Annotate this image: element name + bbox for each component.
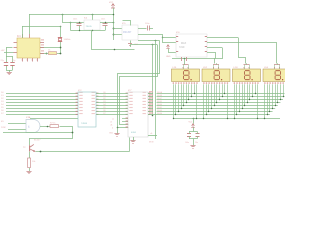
junction rtc pin2 <box>113 34 115 36</box>
wire link Q5 <box>96 108 128 110</box>
svg-text:IC3A: IC3A <box>26 116 31 119</box>
ic driver MAX7219 <box>176 34 207 57</box>
svg-text:+5V: +5V <box>1 50 5 52</box>
junction R node <box>46 53 48 55</box>
junction gnd stub <box>117 127 119 129</box>
svg-text:4094: 4094 <box>131 132 137 134</box>
svg-text:SEGE: SEGE <box>157 104 163 106</box>
display LD3 <box>233 69 261 82</box>
wire R8 gnd <box>29 168 31 171</box>
wire vcc3 down <box>193 127 195 131</box>
junction gnd mid <box>114 49 116 51</box>
svg-text:7219: 7219 <box>179 46 185 49</box>
pin stubs MCU right <box>40 42 44 44</box>
junction crystal net <box>60 47 62 49</box>
digit 8 display 2 <box>214 71 219 80</box>
wire IC7 bottom pin <box>129 138 131 152</box>
wire emitter out <box>36 151 41 153</box>
wire cap drop1 <box>6 47 8 62</box>
wire crystal drop <box>60 26 62 33</box>
pin mark display 3 <box>258 70 259 71</box>
wire extra net <box>30 118 78 120</box>
wire rtc right1 <box>138 28 147 30</box>
wire after C7 <box>149 28 153 30</box>
ground GND7 <box>26 171 31 173</box>
wire segment bus f <box>157 108 276 110</box>
svg-text:Q5: Q5 <box>103 107 106 109</box>
pin ticks MAX <box>176 35 178 38</box>
svg-text:Q1: Q1 <box>103 95 106 97</box>
svg-text:78L05: 78L05 <box>86 26 93 28</box>
wire caps to gnd <box>6 65 8 70</box>
wire rtc left1 <box>113 28 122 30</box>
wire data bus D7 <box>6 114 78 116</box>
wire net S riser <box>155 40 157 139</box>
junction reg input <box>62 14 64 16</box>
wire rtc bottom <box>130 41 132 44</box>
svg-text:100n: 100n <box>73 19 77 21</box>
wire MCU pin stub <box>40 53 48 55</box>
junction C4 <box>105 22 106 23</box>
junction dig0 <box>184 58 186 60</box>
ground GND9 <box>114 133 119 135</box>
svg-text:clk: clk <box>110 125 112 127</box>
capacitor C1 <box>4 62 8 64</box>
junction R1 right <box>60 53 62 55</box>
wire sda riser <box>162 34 164 42</box>
junction gnd rail <box>79 30 80 31</box>
svg-text:100n: 100n <box>101 19 105 21</box>
junction net R <box>152 44 154 46</box>
display LD1 <box>172 69 200 82</box>
wire link Q2 <box>96 99 128 101</box>
svg-text:100n: 100n <box>145 23 149 25</box>
wire dig0 drop <box>184 59 186 64</box>
wire max left3 <box>168 52 176 54</box>
wire MCU top pin2 <box>22 26 24 38</box>
svg-text:PWM: PWM <box>1 127 6 129</box>
wire gate out <box>40 126 50 128</box>
svg-text:GND: GND <box>166 56 171 58</box>
junction reg in branch <box>70 22 72 24</box>
wire reg bottom pin <box>92 29 94 32</box>
wire rtc left2 <box>113 34 122 36</box>
wire dig1 v <box>215 48 223 64</box>
wire aux loop <box>49 26 60 28</box>
junction crystal loop <box>60 26 62 28</box>
wire data bus D1 <box>6 96 78 98</box>
svg-text:10u: 10u <box>195 142 198 144</box>
supply VCC1 <box>111 4 115 8</box>
wire bracket feed 3 <box>246 63 248 65</box>
wire reg gnd rail <box>71 30 106 32</box>
wire crystal stubs <box>60 33 62 38</box>
pin labels display 4 <box>264 82 265 84</box>
capacitor C5 <box>187 133 191 135</box>
svg-text:Q7: Q7 <box>103 113 106 115</box>
svg-text:GND: GND <box>109 133 114 135</box>
wire net Q riser <box>120 45 158 125</box>
pin labels MCU right <box>41 39 44 40</box>
wire link Q0 <box>96 93 128 95</box>
svg-text:SEGB: SEGB <box>157 95 163 97</box>
pin stubs MCU bottom <box>22 58 24 62</box>
wire top rail VCC <box>29 14 113 16</box>
junction VCC rail <box>113 14 115 16</box>
gate IC3A <box>26 120 40 133</box>
wire vcc tap <box>193 118 195 123</box>
pin ticks bus ICs <box>76 92 78 95</box>
wire net P riser <box>118 41 160 128</box>
wire data bus D4 <box>6 105 78 107</box>
svg-text:VCC: VCC <box>109 2 114 4</box>
wire base drop <box>29 138 31 145</box>
common bracket display 1 <box>183 64 189 66</box>
svg-text:clk: clk <box>150 133 152 135</box>
junction net S <box>155 40 157 42</box>
wire reg left pin <box>62 22 84 24</box>
ground GND5 <box>190 145 195 147</box>
wire gate in1 <box>8 123 26 125</box>
wire MCU top pin <box>29 14 31 34</box>
ic MCU IC1 <box>17 38 40 58</box>
junction emitter <box>40 151 42 153</box>
pin stubs IC7 right <box>148 93 153 95</box>
svg-text:R7 1k: R7 1k <box>50 122 56 124</box>
wire rtc top <box>123 21 131 26</box>
transistor T2 <box>29 145 31 151</box>
wire dig0 h57 <box>172 58 215 60</box>
capacitor C3 <box>79 22 81 24</box>
wire T2 to R8 <box>29 152 31 158</box>
digit 8 display 4 <box>275 71 280 80</box>
pin stubs IC7 lowleft <box>122 118 128 120</box>
resistor R7 <box>50 125 59 128</box>
wire max in1 <box>162 37 176 39</box>
ic regulator 78L05 <box>84 20 100 30</box>
svg-text:SEGG: SEGG <box>157 110 163 112</box>
wire link Q1 <box>96 96 128 98</box>
wire dig0 v <box>215 52 217 59</box>
svg-text:Q3: Q3 <box>103 101 106 103</box>
wire segment bus h <box>153 114 270 116</box>
wire under net <box>3 132 72 134</box>
wires display 4 segment pins <box>264 84 266 118</box>
wire segment bus d <box>157 102 281 104</box>
ic RTC DS1307 <box>122 25 138 40</box>
wire dig2 h <box>207 37 238 39</box>
supply VCC2 <box>166 45 170 49</box>
wire reg input drop <box>62 14 64 22</box>
junction reg out <box>113 22 115 24</box>
junction rtc pin1 <box>113 28 115 30</box>
junction C3 <box>79 22 80 23</box>
pin ticks MCU inner <box>18 42 20 43</box>
svg-text:MAX: MAX <box>181 42 187 45</box>
pin labels display 2 <box>203 82 204 84</box>
junction net R bus <box>152 115 154 117</box>
pin mark display 4 <box>288 70 289 71</box>
svg-text:Q6: Q6 <box>103 110 106 112</box>
capacitor C2 <box>10 62 14 64</box>
wire reg right pin <box>100 22 113 24</box>
wire R1 to crystal net <box>57 53 60 55</box>
battery B1 <box>128 43 132 45</box>
pin ticks IC7 lowleft <box>126 117 128 120</box>
junction reg top <box>92 14 94 16</box>
wire data bus D6 <box>6 111 78 113</box>
wire loop to MCU <box>22 26 49 28</box>
wire segment bus a <box>157 93 285 95</box>
wire bracket feed 2 <box>216 63 218 65</box>
display LD4 <box>263 69 291 82</box>
wire dig3 v <box>276 42 278 64</box>
common bracket display 3 <box>244 64 250 66</box>
wire bracket feed 1 <box>184 63 186 65</box>
wire vcc2 drop <box>168 49 170 53</box>
wire net h44 <box>130 44 157 46</box>
wire left supply <box>4 52 14 54</box>
ground GND6 <box>130 140 135 142</box>
wire segment bus b <box>157 96 285 98</box>
svg-text:str: str <box>110 121 112 124</box>
svg-text:MOSI: MOSI <box>149 142 154 144</box>
display LD2 <box>202 69 230 82</box>
pin stubs MCU left <box>14 42 18 44</box>
wire cap top tie <box>6 56 13 58</box>
pin mark display 1 <box>197 70 198 71</box>
svg-text:Q4: Q4 <box>103 104 106 106</box>
digit 8 display 3 <box>245 71 250 80</box>
wire max in2 <box>162 42 176 44</box>
wire net R riser <box>152 44 154 115</box>
svg-text:SEGH: SEGH <box>157 113 163 115</box>
wires display 3 segment pins <box>234 84 236 118</box>
wire link Q3 <box>96 102 128 104</box>
wires display 2 segment pins <box>203 84 205 118</box>
ic latch IC7 <box>128 92 148 137</box>
wire cap branch <box>7 47 13 49</box>
wire segment bus e <box>157 105 278 107</box>
junction sda <box>162 37 163 38</box>
svg-text:74595: 74595 <box>81 123 88 125</box>
wire dig0 h <box>207 52 215 54</box>
crystal Q1 <box>58 37 62 39</box>
wire gnd rail drop <box>92 31 135 50</box>
wire segment bus c <box>157 99 284 101</box>
wire reg top pin <box>92 14 94 20</box>
wire R7 out <box>30 127 73 139</box>
svg-text:Q2: Q2 <box>103 98 106 100</box>
wire reg in branch <box>70 22 72 31</box>
wire IC7 right low <box>148 135 157 137</box>
wire dp line <box>174 118 280 120</box>
pin mark display 2 <box>227 70 228 71</box>
pin labels display 1 <box>173 82 174 84</box>
junction gate out <box>47 126 49 128</box>
svg-text:SEGA: SEGA <box>157 91 163 94</box>
capacitor C6 <box>196 133 200 135</box>
wire MCU pin to crystal <box>40 47 60 49</box>
common bracket display 2 <box>213 64 219 66</box>
wire data bus D3 <box>6 102 78 104</box>
wire data bus D5 <box>6 108 78 110</box>
junction under net <box>72 132 74 134</box>
wire link Q7 <box>96 114 128 116</box>
svg-text:BC547: BC547 <box>34 140 41 142</box>
resistor R1 <box>49 52 57 55</box>
wire bracket feed 4 <box>277 63 279 65</box>
wire dig3 h <box>207 42 276 44</box>
svg-text:DS1307: DS1307 <box>123 32 132 34</box>
common bracket display 4 <box>274 64 280 66</box>
svg-text:SEGD: SEGD <box>157 101 163 103</box>
svg-text:IC1: IC1 <box>17 35 21 38</box>
svg-text:16MHz: 16MHz <box>64 39 71 41</box>
wire cap drop2 <box>12 56 14 62</box>
wire data bus D2 <box>6 99 78 101</box>
wire rtc right2 sda <box>138 34 162 36</box>
wire gnd stub <box>117 128 119 134</box>
wire link Q6 <box>96 111 128 113</box>
wire gate in2 <box>8 129 26 131</box>
wires display 1 segment pins <box>173 84 175 118</box>
wire data bus D0 <box>6 93 78 95</box>
wire VCC drop <box>113 8 115 40</box>
wire segment bus g <box>157 111 273 113</box>
capacitor C4 <box>105 22 107 24</box>
svg-text:d: d <box>112 128 113 130</box>
svg-text:100n: 100n <box>185 142 189 144</box>
wire dig2 v <box>239 38 246 64</box>
ic shift register IC2 <box>78 92 96 127</box>
digit 8 display 1 <box>184 71 189 80</box>
wire net h40 <box>138 40 160 42</box>
wire crystal to node <box>60 47 62 53</box>
wire caps bottom <box>189 138 198 140</box>
wire link Q4 <box>96 105 128 107</box>
svg-text:SEGC: SEGC <box>157 98 163 100</box>
supply VCC3 <box>191 124 195 128</box>
resistor R8 <box>28 158 31 168</box>
svg-text:oe: oe <box>112 119 114 121</box>
junction vcc tap <box>193 118 195 120</box>
wire dig1 h <box>207 47 222 49</box>
pin stubs max bottom <box>181 57 183 61</box>
svg-text:Q0: Q0 <box>103 92 106 94</box>
ground GND1 <box>7 72 12 74</box>
capacitor C7 <box>147 26 149 31</box>
pin labels display 3 <box>234 82 235 84</box>
